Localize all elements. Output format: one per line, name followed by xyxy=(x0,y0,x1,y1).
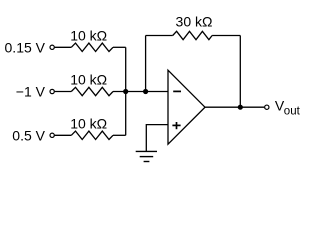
svg-text:10 kΩ: 10 kΩ xyxy=(70,28,107,44)
wire V2 to R2 xyxy=(55,91,72,93)
op-amp U1 non-inverting pin mark + xyxy=(172,122,180,129)
wire feedback top right segment xyxy=(212,35,240,37)
wire R3 to bus xyxy=(113,134,126,136)
svg-text:10 kΩ: 10 kΩ xyxy=(70,116,107,132)
svg-text:−1 V: −1 V xyxy=(16,84,46,100)
wire R2 to inverting input xyxy=(113,91,168,93)
terminal V1 xyxy=(50,45,54,49)
wire feedback right vertical xyxy=(239,36,241,108)
ground xyxy=(136,151,157,161)
wire output xyxy=(205,106,264,108)
svg-text:0.5 V: 0.5 V xyxy=(12,128,45,144)
resistor R1 xyxy=(71,43,113,51)
node Vout label xyxy=(275,98,301,118)
junction output node xyxy=(238,105,243,110)
svg-text:30 kΩ: 30 kΩ xyxy=(176,14,213,30)
wire V1 to R1 xyxy=(55,46,72,48)
terminal Vout xyxy=(265,105,269,109)
resistor R2 xyxy=(71,87,113,95)
wire summing bus vertical xyxy=(125,47,127,135)
resistor R4 xyxy=(173,31,212,39)
svg-text:0.15 V: 0.15 V xyxy=(5,39,46,55)
svg-text:10 kΩ: 10 kΩ xyxy=(70,72,107,88)
wire V3 to R3 xyxy=(55,134,72,136)
op-amp U1 inverting pin mark - xyxy=(173,90,181,92)
wire non-inverting input xyxy=(146,125,168,152)
junction feedback tap xyxy=(143,89,148,94)
svg-text:out: out xyxy=(284,105,301,117)
wire feedback left vertical xyxy=(145,36,147,92)
wire feedback top left segment xyxy=(146,35,173,37)
op-amp U1 xyxy=(168,70,205,144)
terminal V3 xyxy=(50,133,54,137)
junction summing node xyxy=(123,89,128,94)
resistor R3 xyxy=(71,131,113,139)
wire R1 to bus xyxy=(113,46,126,48)
terminal V2 xyxy=(50,89,54,93)
